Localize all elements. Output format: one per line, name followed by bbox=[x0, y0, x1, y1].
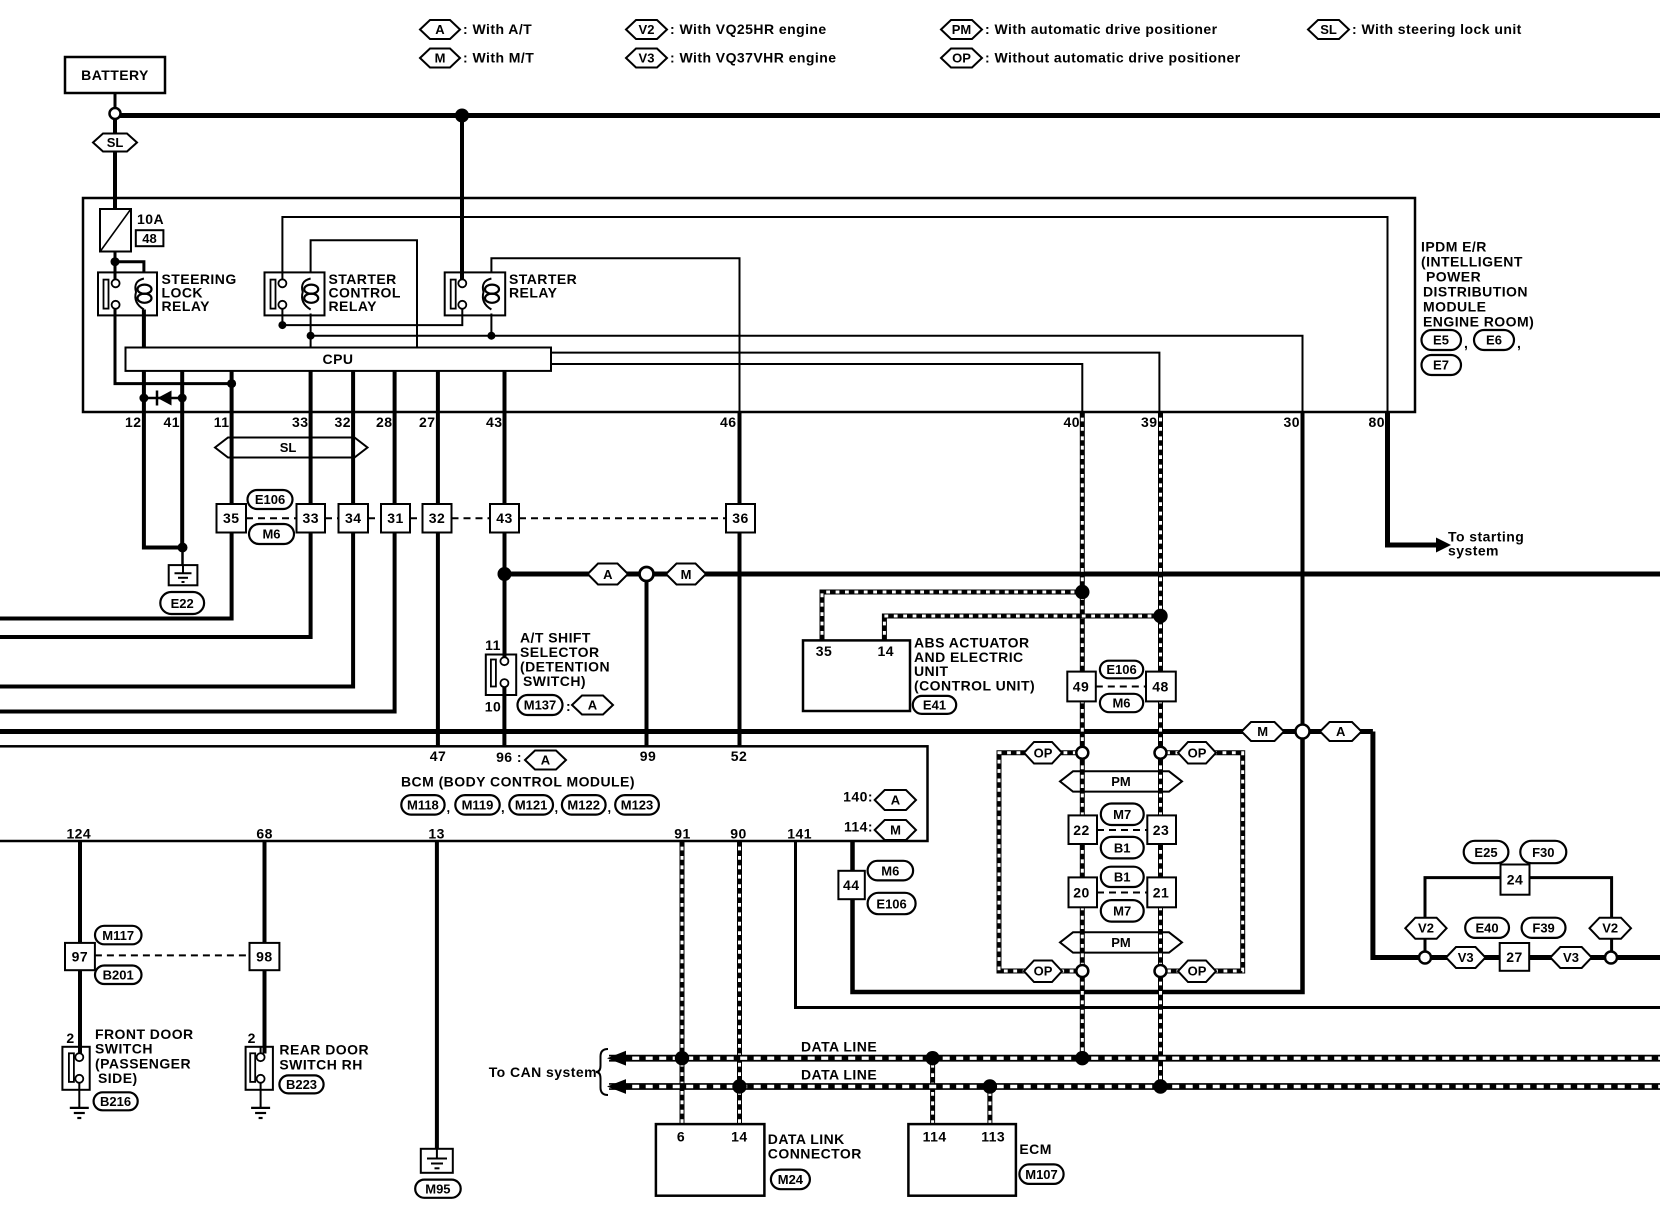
svg-text:80: 80 bbox=[1369, 414, 1385, 430]
svg-text:V2: V2 bbox=[639, 22, 655, 37]
svg-text:: With automatic drive positio: : With automatic drive positioner bbox=[985, 21, 1218, 37]
svg-text:39: 39 bbox=[1141, 414, 1157, 430]
svg-text:M123: M123 bbox=[621, 798, 654, 813]
svg-text:13: 13 bbox=[428, 826, 444, 842]
hexagon A after M137 bbox=[572, 696, 613, 715]
wire A/T shift selector pin 10 to BCM pin 96 bbox=[502, 687, 506, 747]
junction pin 11 node bbox=[227, 379, 236, 388]
svg-text:: With VQ37VHR engine: : With VQ37VHR engine bbox=[670, 50, 836, 66]
svg-text:: With VQ25HR engine: : With VQ25HR engine bbox=[670, 21, 827, 37]
wire steering lock relay coil bottom to pin 12 and E22 corner bbox=[144, 310, 183, 548]
wire CPU right stub to IPDM pin 39 bbox=[551, 353, 1159, 412]
legend hexagon A bbox=[420, 20, 532, 39]
svg-text:49: 49 bbox=[1073, 679, 1089, 695]
legend hexagon SL bbox=[1308, 20, 1522, 39]
connector E22 oval bbox=[160, 592, 204, 614]
ground front door switch bbox=[70, 1108, 89, 1118]
svg-text:SWITCH): SWITCH) bbox=[523, 673, 586, 689]
svg-text:: With steering lock unit: : With steering lock unit bbox=[1352, 21, 1522, 37]
junction data line 2 DLC bbox=[732, 1079, 746, 1093]
connector B223 oval bbox=[279, 1075, 323, 1093]
wire BCM pin 90 dashed to data line 2 and DLC pin 14 bbox=[737, 841, 742, 1124]
svg-text:MODULE: MODULE bbox=[1423, 299, 1486, 315]
wire BCM pin 140/114 through connector 44 to option circle bbox=[853, 739, 1303, 993]
BCM pin 96 label with A hexagon bbox=[496, 749, 566, 770]
A/T shift selector (detention switch) bbox=[486, 655, 516, 696]
svg-text:PM: PM bbox=[1111, 774, 1131, 789]
svg-text:32: 32 bbox=[429, 510, 445, 526]
wire front door switch to ground bbox=[78, 1083, 80, 1108]
svg-text:OP: OP bbox=[1034, 745, 1053, 760]
svg-text:11: 11 bbox=[485, 637, 501, 653]
svg-text:SWITCH: SWITCH bbox=[95, 1041, 153, 1057]
BCM bottom pin labels bbox=[66, 826, 812, 842]
wire CAN data line 2 bbox=[609, 1083, 1660, 1090]
wire starter control relay switch top to IPDM pin 80 bbox=[282, 217, 1387, 412]
junction starter relay coil bottom bbox=[487, 332, 495, 340]
svg-text:,: , bbox=[608, 800, 612, 815]
svg-text:12: 12 bbox=[125, 414, 141, 430]
wire CPU pin 33 to connector 33 and left exit y=637 bbox=[0, 371, 311, 637]
svg-text:RELAY: RELAY bbox=[162, 298, 211, 314]
connector E6 bbox=[1474, 330, 1521, 351]
svg-text:,: , bbox=[555, 800, 559, 815]
svg-text:M95: M95 bbox=[425, 1181, 450, 1196]
svg-text:M: M bbox=[1257, 724, 1268, 739]
dashed link 49-48 bbox=[1096, 686, 1146, 688]
junction battery bus bbox=[455, 109, 469, 123]
connector row 43 bbox=[490, 504, 519, 533]
svg-text:124: 124 bbox=[66, 826, 91, 842]
svg-text:CPU: CPU bbox=[323, 351, 354, 367]
svg-text:M6: M6 bbox=[881, 863, 899, 878]
svg-text:IPDM E/R: IPDM E/R bbox=[1421, 239, 1487, 255]
ground M95 symbol bbox=[421, 1149, 453, 1173]
svg-text:V3: V3 bbox=[639, 51, 655, 66]
connector M6 oval (49/48) bbox=[1100, 694, 1143, 712]
svg-text:2: 2 bbox=[66, 1030, 74, 1046]
junction data line 2 CAN column bbox=[1153, 1079, 1167, 1093]
svg-text:10: 10 bbox=[485, 699, 501, 715]
wire BCM pin 124 to connector 97 and front door switch bbox=[78, 841, 82, 1054]
svg-text:OP: OP bbox=[1188, 964, 1207, 979]
hexagon V2 right bbox=[1590, 918, 1632, 939]
connector M137 oval bbox=[518, 695, 572, 715]
wire main battery bus y=115 bbox=[120, 113, 1660, 118]
svg-text:B1: B1 bbox=[1114, 840, 1131, 855]
svg-text:SL: SL bbox=[280, 440, 297, 455]
svg-text:,: , bbox=[447, 800, 451, 815]
svg-text:E106: E106 bbox=[1106, 662, 1136, 677]
legend hexagon PM bbox=[941, 20, 1218, 39]
svg-text:E41: E41 bbox=[923, 697, 946, 712]
svg-text:90: 90 bbox=[730, 826, 746, 842]
connector 49 box bbox=[1067, 672, 1096, 702]
svg-text:(INTELLIGENT: (INTELLIGENT bbox=[1421, 254, 1523, 270]
junction fuse to relay bbox=[111, 257, 120, 266]
connector M7 oval bottom bbox=[1101, 900, 1144, 922]
svg-text:A: A bbox=[1336, 724, 1346, 739]
wire battery lead bbox=[114, 93, 117, 108]
junction ABS branch 1 bbox=[1075, 585, 1089, 599]
dashed link 97-98 bbox=[95, 954, 250, 956]
connector 98 box bbox=[250, 943, 280, 970]
hexagon V3 right bbox=[1550, 947, 1591, 968]
svg-text:BCM (BODY CONTROL MODULE): BCM (BODY CONTROL MODULE) bbox=[401, 774, 635, 790]
svg-text:DATA LINE: DATA LINE bbox=[801, 1039, 877, 1055]
svg-text:2: 2 bbox=[248, 1030, 256, 1046]
svg-text:B216: B216 bbox=[100, 1094, 131, 1109]
connector M123 oval bbox=[615, 795, 659, 815]
connector row 35 bbox=[217, 504, 247, 533]
svg-text:E6: E6 bbox=[1486, 333, 1502, 348]
connector row 31 bbox=[381, 504, 410, 533]
junction data line 1 DLC bbox=[675, 1051, 689, 1065]
svg-text:M6: M6 bbox=[1112, 696, 1130, 711]
svg-text:A: A bbox=[603, 567, 613, 582]
wire starter relay coil bottom stub bbox=[490, 314, 492, 336]
svg-text:41: 41 bbox=[164, 414, 180, 430]
ground rear door switch bbox=[251, 1108, 270, 1118]
svg-text:SL: SL bbox=[107, 135, 124, 150]
front door switch label bbox=[95, 1026, 194, 1086]
connector row 32 bbox=[423, 504, 452, 533]
connector M122 oval bbox=[562, 795, 611, 815]
svg-text:33: 33 bbox=[292, 414, 308, 430]
svg-text:141: 141 bbox=[787, 826, 812, 842]
BCM pin 140 label with A hexagon bbox=[843, 789, 916, 811]
svg-text:(PASSENGER: (PASSENGER bbox=[95, 1055, 191, 1071]
A/T shift selector label bbox=[520, 630, 610, 690]
svg-text:(CONTROL UNIT): (CONTROL UNIT) bbox=[914, 677, 1035, 693]
svg-text:114:: 114: bbox=[844, 819, 873, 835]
wire V2 loop right bbox=[1530, 878, 1612, 952]
wire BCM pin 68 to connector 98 and rear door switch bbox=[263, 841, 267, 1054]
legend hexagon V2 bbox=[626, 20, 827, 39]
svg-text:14: 14 bbox=[877, 643, 893, 659]
text To starting system bbox=[1448, 529, 1524, 559]
connector 23 box bbox=[1147, 815, 1176, 844]
junction starter control coil bottom bbox=[307, 332, 315, 340]
starter control relay bbox=[265, 271, 401, 315]
svg-text:113: 113 bbox=[981, 1129, 1005, 1145]
ECM box bbox=[908, 1124, 1016, 1196]
junction data line 2 ECM bbox=[983, 1079, 997, 1093]
ground E22 symbol bbox=[169, 565, 198, 585]
svg-text:40: 40 bbox=[1064, 414, 1080, 430]
svg-text:36: 36 bbox=[732, 510, 748, 526]
svg-text:E106: E106 bbox=[876, 896, 906, 911]
svg-text:27: 27 bbox=[1506, 949, 1522, 965]
node OP circle bottom right bbox=[1155, 965, 1167, 977]
wire CAN dashed IPDM pin 39 column bbox=[1158, 412, 1163, 1087]
wire CPU pin 28 to connector 31 and left exit y=708.4 bbox=[0, 371, 395, 712]
IPDM E/R label bbox=[1421, 239, 1534, 330]
connector B216 oval bbox=[94, 1092, 138, 1110]
svg-text:M: M bbox=[435, 51, 446, 66]
connector E41 oval bbox=[913, 696, 956, 714]
svg-text:M107: M107 bbox=[1025, 1167, 1058, 1182]
connector M107 oval bbox=[1019, 1164, 1063, 1184]
svg-text:F39: F39 bbox=[1532, 921, 1554, 936]
hexagon A on bus 731 bbox=[1320, 722, 1362, 741]
connector M24 oval bbox=[771, 1170, 810, 1190]
svg-text:F30: F30 bbox=[1532, 845, 1554, 860]
svg-text:140:: 140: bbox=[843, 789, 873, 805]
svg-text:98: 98 bbox=[256, 949, 272, 965]
wire BCM pin 91 dashed to data line 1 and DLC pin 6 bbox=[680, 841, 685, 1124]
svg-text:M122: M122 bbox=[567, 798, 600, 813]
connector M6 oval (row) bbox=[249, 524, 294, 544]
junction E22 bbox=[178, 543, 188, 553]
connector E40 oval bbox=[1465, 918, 1509, 938]
wire starter relay coil top to IPDM pin 46 bbox=[491, 258, 739, 412]
svg-text:35: 35 bbox=[816, 643, 832, 659]
wire CPU pin 11 to connector 35 and left exit y=618.5 bbox=[0, 371, 232, 619]
connector 22 box bbox=[1069, 815, 1098, 844]
wire CPU pin 43 to bus and A/T shift selector bbox=[503, 371, 507, 658]
connector M118 oval bbox=[401, 795, 450, 815]
hexagon M on bus 574 bbox=[666, 564, 706, 585]
node battery terminal circle bbox=[110, 108, 121, 119]
hexagon A on bus 574 bbox=[588, 564, 628, 585]
wire ECM pin 113 dashed bbox=[987, 1087, 992, 1125]
svg-text:M6: M6 bbox=[262, 527, 280, 542]
svg-text:,: , bbox=[1517, 335, 1521, 351]
svg-text:22: 22 bbox=[1073, 822, 1089, 838]
svg-text:M117: M117 bbox=[102, 928, 134, 943]
junction diode left bbox=[139, 394, 148, 403]
dashed link 22-23 bbox=[1097, 829, 1147, 831]
wire SL hexagon to fuse 48 bbox=[113, 151, 117, 209]
svg-text:FRONT DOOR: FRONT DOOR bbox=[95, 1026, 194, 1042]
svg-text:OP: OP bbox=[952, 51, 971, 66]
connector row dashed links bbox=[246, 517, 726, 519]
svg-text:ECM: ECM bbox=[1019, 1141, 1051, 1157]
wire option bus right leg down to V-net bbox=[1373, 732, 1419, 958]
svg-text:: Without automatic drive posi: : Without automatic drive positioner bbox=[985, 50, 1241, 66]
connector 21 box bbox=[1147, 877, 1176, 907]
svg-text:6: 6 bbox=[677, 1129, 685, 1145]
arrowhead data line 2 bbox=[607, 1079, 626, 1094]
wire bus circle to BCM pin 99 bbox=[645, 580, 649, 746]
svg-text:21: 21 bbox=[1153, 885, 1169, 901]
svg-text:OP: OP bbox=[1188, 745, 1207, 760]
svg-text:31: 31 bbox=[387, 510, 403, 526]
svg-text:RELAY: RELAY bbox=[329, 298, 378, 314]
svg-text:SL: SL bbox=[1320, 22, 1337, 37]
wire steering lock relay switch bottom to pin 11 node bbox=[115, 309, 232, 384]
connector B1 oval lower bbox=[1101, 867, 1144, 887]
svg-text:91: 91 bbox=[674, 826, 690, 842]
svg-text:B1: B1 bbox=[1114, 870, 1131, 885]
connector 48 box bbox=[1146, 672, 1176, 702]
svg-text:A: A bbox=[435, 22, 445, 37]
junction starter control switch bottom bbox=[278, 321, 286, 329]
svg-text:A: A bbox=[541, 753, 551, 768]
wire IPDM pin 46 to connector 36 and BCM pin 52 bbox=[738, 412, 742, 746]
wire relay coils to IPDM pin 30 bbox=[311, 336, 1303, 412]
connector E106 oval (49/48) bbox=[1100, 661, 1143, 679]
svg-text:SWITCH RH: SWITCH RH bbox=[279, 1056, 362, 1072]
svg-text:E7: E7 bbox=[1433, 358, 1449, 373]
connector M117 oval bbox=[95, 926, 142, 945]
SL hexagon below battery bbox=[93, 134, 137, 152]
wire CPU pin 27 to BCM pin 47 bbox=[436, 371, 440, 746]
junction diode right bbox=[178, 394, 187, 403]
connector E106 oval (44) bbox=[868, 893, 916, 914]
svg-text:RELAY: RELAY bbox=[509, 285, 558, 301]
connector 44 box bbox=[838, 871, 864, 899]
wire main bus y=574 bbox=[505, 572, 1660, 577]
node V2/V3 circle right bbox=[1605, 952, 1617, 964]
PM option long hexagon bottom bbox=[1060, 932, 1182, 952]
svg-text:M: M bbox=[890, 823, 901, 838]
svg-text:47: 47 bbox=[430, 748, 446, 764]
svg-text:V3: V3 bbox=[1563, 950, 1579, 965]
node OP circle top left bbox=[1076, 747, 1088, 759]
wire starter control relay coil top loop to CPU bbox=[311, 240, 417, 347]
wire OP bypass loop left bbox=[999, 753, 1082, 971]
wire IPDM pin 80 to starting system bbox=[1388, 412, 1438, 545]
svg-text:43: 43 bbox=[486, 414, 502, 430]
wire OP bypass loop right bbox=[1161, 753, 1243, 971]
wire CPU right stub to IPDM pin 40 bbox=[551, 364, 1082, 412]
node V2/V3 circle left bbox=[1419, 952, 1431, 964]
svg-text:48: 48 bbox=[142, 231, 156, 246]
wire fuse bottom to steering lock relay switch bbox=[114, 252, 117, 280]
svg-text:33: 33 bbox=[302, 510, 318, 526]
node A/M split circle on bus 574 bbox=[640, 567, 654, 581]
connector E106 oval (row) bbox=[248, 490, 293, 509]
hexagon OP top right bbox=[1178, 742, 1216, 764]
svg-text:SIDE): SIDE) bbox=[98, 1070, 138, 1086]
data link connector label bbox=[768, 1131, 862, 1162]
svg-text:M121: M121 bbox=[515, 798, 548, 813]
svg-text:E5: E5 bbox=[1433, 333, 1449, 348]
wire BCM pin 141 to right edge bbox=[796, 841, 1660, 1008]
svg-text::: : bbox=[566, 698, 571, 714]
connector E25 oval bbox=[1464, 841, 1509, 863]
svg-text:To CAN system: To CAN system bbox=[489, 1064, 597, 1080]
connector M121 oval bbox=[509, 795, 558, 815]
svg-text:48: 48 bbox=[1152, 679, 1168, 695]
wire BCM pin 13 to ground M95 bbox=[435, 841, 439, 1149]
svg-text:E106: E106 bbox=[255, 492, 285, 507]
svg-text:46: 46 bbox=[720, 414, 736, 430]
brace for CAN arrows bbox=[596, 1049, 608, 1095]
svg-text:10A: 10A bbox=[137, 211, 164, 227]
hexagon V2 left bbox=[1405, 918, 1446, 939]
svg-text:20: 20 bbox=[1073, 885, 1089, 901]
hexagon OP top left bbox=[1024, 742, 1062, 764]
wire fuse junction to steering lock relay coil bbox=[115, 262, 144, 273]
wire bus junction down to starter relay switch bbox=[460, 116, 464, 280]
svg-text:DATA LINK: DATA LINK bbox=[768, 1131, 845, 1147]
fuse 10A 48 bbox=[100, 209, 164, 252]
starter relay bbox=[445, 271, 578, 315]
wire ECM pin 114 dashed bbox=[930, 1058, 935, 1124]
svg-text:OP: OP bbox=[1034, 964, 1053, 979]
svg-text:32: 32 bbox=[335, 414, 351, 430]
svg-text:M: M bbox=[681, 567, 692, 582]
rear door switch label bbox=[279, 1042, 369, 1073]
connector B1 oval upper bbox=[1101, 837, 1144, 859]
connector M95 oval bbox=[415, 1180, 461, 1198]
svg-text:M118: M118 bbox=[407, 798, 439, 813]
svg-text:43: 43 bbox=[496, 510, 512, 526]
wire CAN dashed IPDM pin 40 column bbox=[1080, 412, 1085, 1058]
data link connector box bbox=[656, 1124, 765, 1196]
svg-text:V2: V2 bbox=[1418, 921, 1434, 936]
SL option long hexagon bbox=[215, 438, 368, 458]
arrowhead to starting system bbox=[1436, 538, 1451, 553]
steering lock relay bbox=[98, 271, 237, 315]
wire V2 loop left bbox=[1425, 878, 1501, 952]
svg-text:ENGINE ROOM): ENGINE ROOM) bbox=[1423, 314, 1534, 330]
connector M119 oval bbox=[455, 795, 504, 815]
wire option bus y=731.5 bbox=[0, 729, 1373, 734]
svg-text:B223: B223 bbox=[286, 1077, 317, 1092]
wire starter control relay switch bottom to starter relay switch bottom bbox=[282, 309, 462, 326]
front door switch bbox=[62, 1047, 89, 1090]
svg-text:A: A bbox=[588, 698, 598, 713]
wire CAN dashed branch to ABS pin 14 bbox=[884, 616, 1160, 640]
ABS actuator box bbox=[803, 640, 910, 711]
hexagon V3 left bbox=[1446, 947, 1486, 968]
svg-text:23: 23 bbox=[1153, 822, 1169, 838]
svg-text:E25: E25 bbox=[1474, 845, 1497, 860]
legend hexagon M bbox=[420, 49, 534, 68]
svg-text:: With M/T: : With M/T bbox=[463, 50, 534, 66]
svg-text:M24: M24 bbox=[778, 1172, 804, 1187]
svg-text:44: 44 bbox=[843, 877, 859, 893]
svg-text:REAR DOOR: REAR DOOR bbox=[279, 1042, 369, 1058]
svg-text:52: 52 bbox=[731, 748, 747, 764]
IPDM E/R box bbox=[83, 198, 1415, 412]
svg-text:A: A bbox=[891, 793, 901, 808]
svg-text:V2: V2 bbox=[1602, 921, 1618, 936]
svg-text:28: 28 bbox=[376, 414, 392, 430]
svg-text:,: , bbox=[501, 800, 505, 815]
svg-text:CONNECTOR: CONNECTOR bbox=[768, 1146, 862, 1162]
wire starter control relay coil bottom to CPU top bbox=[310, 314, 312, 348]
wire rear door switch to ground bbox=[260, 1083, 262, 1108]
PM option long hexagon top bbox=[1060, 771, 1182, 791]
node OP circle bottom left bbox=[1076, 965, 1088, 977]
junction data line 1 CAN column bbox=[1075, 1051, 1089, 1065]
wire CAN dashed branch to ABS pin 35 bbox=[822, 592, 1082, 640]
svg-text:PM: PM bbox=[1111, 935, 1131, 950]
svg-text:V3: V3 bbox=[1458, 950, 1474, 965]
svg-text:DATA LINE: DATA LINE bbox=[801, 1067, 877, 1083]
junction data line 1 ECM bbox=[925, 1051, 939, 1065]
svg-text:30: 30 bbox=[1284, 414, 1300, 430]
wire E22 junction to ground bbox=[181, 548, 184, 567]
svg-text:M7: M7 bbox=[1113, 807, 1131, 822]
CPU box bbox=[126, 348, 552, 371]
wire CPU pin 32 to connector 34 and left exit y=686.5 bbox=[0, 371, 353, 687]
node OP circle top right bbox=[1155, 747, 1167, 759]
svg-text:24: 24 bbox=[1507, 872, 1523, 888]
connector 24 box bbox=[1501, 865, 1530, 895]
diode (between pin12 and pin41 columns) bbox=[157, 391, 172, 406]
junction bus pin 43 bbox=[498, 567, 512, 581]
svg-text:DISTRIBUTION: DISTRIBUTION bbox=[1423, 284, 1528, 300]
svg-text:27: 27 bbox=[419, 414, 435, 430]
svg-text:11: 11 bbox=[214, 414, 230, 430]
wire diode link bbox=[144, 397, 182, 400]
